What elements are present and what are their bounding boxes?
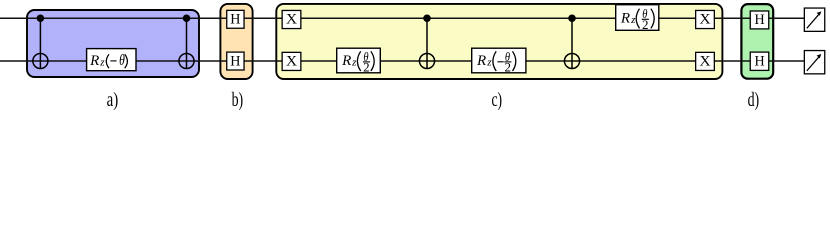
svg-text:z: z (630, 14, 636, 26)
svg-text:z: z (486, 57, 492, 69)
control dot CNOT-2 (183, 14, 191, 22)
gate X c-bottom-left (282, 52, 301, 70)
svg-text:d): d) (748, 90, 760, 111)
group box c) yellow (276, 4, 722, 79)
svg-text:z: z (351, 57, 357, 69)
svg-text:H: H (230, 12, 240, 28)
gate H b-bottom (227, 52, 244, 70)
control dot CNOT-1 (37, 14, 45, 22)
svg-text:R: R (620, 10, 630, 26)
gate X c-bottom-right (696, 52, 715, 70)
gate H d-top (750, 11, 769, 29)
target CNOT-2 (179, 53, 194, 68)
wire CNOT-1 vertical (39, 18, 41, 68)
control dot CNOT-4 (568, 14, 576, 22)
gate X c-top-right (696, 10, 715, 28)
wire CNOT-4 vertical (571, 18, 573, 68)
group box a) blue (27, 10, 199, 77)
meter q0 (804, 8, 824, 31)
control dot CNOT-3 (423, 14, 431, 22)
gate Rz(-theta) (87, 49, 136, 71)
gate X c-top-left (282, 10, 301, 28)
svg-text:2: 2 (505, 59, 512, 74)
gate Rz(theta/2) top (616, 5, 659, 32)
svg-text:2: 2 (363, 59, 370, 74)
wire q1 (0, 60, 805, 62)
svg-text:X: X (699, 54, 710, 70)
gate H d-bottom (750, 52, 769, 70)
wire CNOT-3 vertical (426, 18, 428, 68)
svg-text:c): c) (492, 90, 503, 111)
target CNOT-4 (564, 53, 579, 68)
target CNOT-3 (419, 53, 434, 68)
target CNOT-1 (33, 53, 48, 68)
svg-text:X: X (699, 12, 710, 28)
gate H b-top (227, 10, 244, 28)
group box d) green (741, 4, 773, 79)
svg-text:z: z (99, 57, 105, 69)
svg-text:H: H (754, 54, 764, 70)
gate Rz(theta/2) bottom (337, 48, 381, 74)
svg-text:a): a) (107, 90, 119, 111)
svg-text:b): b) (232, 90, 244, 111)
svg-text:R: R (476, 53, 486, 69)
svg-text:2: 2 (642, 17, 649, 32)
svg-text:X: X (286, 12, 297, 28)
wire CNOT-2 vertical (186, 18, 188, 68)
svg-text:R: R (89, 53, 99, 69)
svg-text:H: H (230, 53, 240, 69)
svg-text:X: X (286, 54, 297, 70)
svg-text:H: H (754, 12, 764, 28)
svg-text:θ: θ (119, 52, 125, 69)
group box b) orange (220, 4, 252, 79)
gate Rz(-theta/2) (472, 48, 526, 74)
svg-text:R: R (341, 53, 351, 69)
wire q0 (0, 17, 805, 19)
meter q1 (804, 51, 824, 74)
